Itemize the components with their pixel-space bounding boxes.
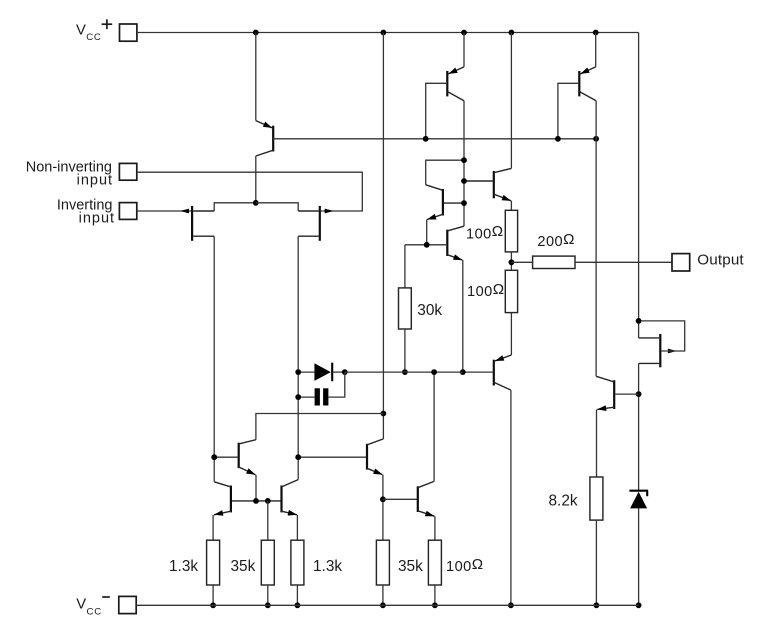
node junction diode cathode / capacitor [342, 369, 348, 375]
transistor Q13 (NPN, gain stage 2) [417, 486, 419, 512]
wire Q8 emitter down to R-8.2k [596, 410, 598, 477]
wire J2 drain node to Q12 base [298, 456, 366, 458]
node junction Q13 collector / gain line [431, 369, 437, 375]
svg-text:input: input [79, 210, 115, 226]
node junction R-100c / VCC- rail [432, 602, 438, 608]
wire R-35kb to VCC- rail [382, 585, 384, 605]
svg-text:30k: 30k [417, 302, 442, 319]
node junction top rail / Q1 emitter [253, 30, 259, 36]
svg-text:100Ω: 100Ω [446, 556, 483, 575]
resistor R-100b 100 ohm (vertical) [505, 270, 517, 312]
node junction Q2 base / base rail [423, 136, 429, 142]
node junction Q4 base / column [461, 200, 467, 206]
wire diode cathode to junction [333, 371, 345, 373]
node junction Q9 collector line / VCC+ branch [381, 411, 387, 417]
wire Q1/Q2/Q3 common base rail [273, 138, 596, 140]
node junction top rail / Q3 emitter [593, 30, 599, 36]
transistor Q11 (NPN, current mirror right) [280, 486, 282, 513]
node junction J3 source / Q8 base [636, 391, 642, 397]
wire Q1 emitter from top rail [255, 33, 257, 121]
svg-text:100Ω: 100Ω [466, 223, 503, 242]
wire Q9 collector to VCC+ branch [256, 414, 384, 440]
wire inverting input to J1 gate [137, 210, 191, 212]
wire Q1 collector down to input-pair sources [255, 156, 257, 203]
node VCC- terminal pad [119, 596, 136, 613]
wire J2 drain down to gain node [297, 236, 299, 479]
resistor R-35kb 35k (vertical) [376, 540, 389, 585]
node junction Q6 emitter / Q7 base / gain line [460, 369, 466, 375]
wire VCC+ top rail [137, 32, 639, 34]
node junction top rail / Q2 emitter [461, 30, 467, 36]
node junction J3 gate loop / drain line [636, 318, 642, 324]
wire Q13 base from Q12 emitter [383, 498, 417, 500]
wire Q8 base to right column [615, 393, 638, 395]
wire Q5 emitter to resistor R-100a [510, 201, 512, 211]
transistor J2 (p-JFET, non-inverting input) [319, 206, 321, 241]
wire R-100a to output node [510, 252, 512, 270]
wire R-35ka to VCC- rail [267, 585, 269, 605]
wire capacitor right plate up to diode cathode junction [328, 372, 344, 397]
wire Q6 base to R-30k top [405, 244, 446, 246]
node junction R-30k / gain line [402, 369, 408, 375]
wire Q3 base to common base rail [558, 83, 578, 139]
transistor Q1 (PNP, top left) [272, 126, 274, 152]
transistor Q6 (NPN, bias chain lower) [446, 230, 448, 256]
wire J1 drain down to Q9 base / Q10 collector [213, 236, 215, 482]
wire J1 source to common-source node [214, 203, 256, 211]
wire Q2 emitter from top rail [463, 33, 465, 67]
svg-text:200Ω: 200Ω [537, 231, 574, 250]
svg-text:100Ω: 100Ω [467, 281, 504, 300]
wire Q9 base from J1 drain [214, 456, 237, 458]
wire Q4 emitter down to Q6 base [426, 220, 428, 245]
resistor R-100c 100 ohm (vertical) [428, 540, 441, 585]
wire VCC- bottom rail [136, 604, 638, 606]
diode D1 (compensation) [314, 363, 330, 381]
wire mirror common base line [232, 500, 281, 502]
wire J2 drain to capacitor left plate [298, 396, 314, 398]
wire Q12 emitter down to R-35kb [382, 475, 384, 541]
wire R-200 to Output pad [575, 261, 672, 263]
wire mirror base tap down to R-35ka [267, 501, 269, 540]
node junction Q9 emitter / mirror base line [253, 498, 259, 504]
node junction base rail end / Q3 collector [593, 136, 599, 142]
transistor Q3 (PNP, top right) [578, 71, 580, 96]
transistor J1 (p-JFET, inverting input) [191, 206, 193, 241]
wire R-100b down to Q7 emitter [510, 313, 512, 355]
wire gain line diode-junction to Q7 base column [345, 371, 463, 373]
node junction J2 drain / diode anode [295, 369, 301, 375]
node output-network junction [509, 259, 515, 265]
wire Q3 collector down to Q8 collector [595, 101, 597, 377]
wire Q13 collector up to gain line [433, 372, 435, 481]
wire output node to R-200 [511, 261, 532, 263]
node junction R-8.2k / VCC- rail [594, 602, 600, 608]
resistor R-35ka 35k (vertical) [261, 540, 274, 585]
svg-text:Output: Output [697, 252, 744, 269]
wire Q5 base to column [464, 180, 493, 182]
wire VCC+ branch down to Q12 collector [382, 33, 384, 439]
svg-text:CC: CC [87, 606, 102, 617]
resistor R-1.3kb 1.3k (vertical) [291, 540, 304, 585]
node junction Q5 base / column [461, 178, 467, 184]
wire Q13 emitter to R-100c [434, 516, 436, 540]
transistor Q9 (NPN, mirror helper) [238, 443, 240, 468]
wire R-1.3ka to VCC- rail [212, 585, 214, 605]
wire non-inverting input to J2 gate [137, 172, 362, 211]
resistor R-30k 30k (vertical) [399, 288, 412, 329]
wire Q2 base to common base rail [426, 83, 447, 139]
wire J3 gate loop to drain [639, 321, 685, 351]
transistor Q8 (NPN, current limit) [613, 380, 615, 409]
wire VCC+ right branch down to J3 drain [638, 33, 640, 338]
svg-text:CC: CC [86, 32, 101, 43]
transistor Q12 (NPN, gain stage) [366, 444, 368, 470]
wire J2 source to common-source node [256, 203, 298, 211]
node common-source junction of J1/J2 [253, 200, 259, 206]
node junction Q4 collector / Q2 collector [461, 157, 467, 163]
node junction J2 drain / Q11 collector / Q12 base [295, 454, 301, 460]
wire gain node to diode anode [298, 371, 314, 373]
wire R-100c to VCC- rail [434, 585, 436, 605]
diode Z1 zener (output protection) [629, 490, 648, 492]
wire R-1.3kb to VCC- rail [296, 585, 298, 605]
wire Q2 collector down bias column [463, 101, 465, 227]
wire Q3 emitter from top rail [595, 33, 597, 67]
node junction R-35ka / VCC- rail [265, 602, 271, 608]
svg-text:1.3k: 1.3k [313, 558, 342, 575]
transistor Q4 (NPN, bias chain) [442, 189, 444, 216]
node junction J1 drain / Q9 base / Q10 collector [211, 454, 217, 460]
svg-text:V: V [76, 22, 86, 38]
node junction R-35kb / VCC- rail [380, 602, 386, 608]
wire Q11 emitter to R-1.3kb [296, 515, 298, 540]
wire J3 source down right column [638, 363, 640, 490]
resistor R-100a 100 ohm (vertical) [505, 210, 517, 252]
node VCC+ terminal pad [120, 24, 137, 41]
wire zener anode to VCC- rail [638, 508, 640, 605]
svg-text:8.2k: 8.2k [549, 493, 578, 510]
resistor R-200 200 ohm (horizontal) [533, 256, 575, 268]
transistor Q7 (PNP, output sink) [493, 360, 495, 386]
wire R-30k down to gain line [404, 329, 406, 372]
node junction Q3 base / base rail [555, 136, 561, 142]
wire Q6 base corner down to R-30k [404, 245, 406, 288]
wire Q7 base from gain line [463, 371, 493, 373]
transistor J3 (p-JFET, diode-connected, right) [659, 334, 661, 367]
node Inverting input terminal pad [119, 203, 136, 220]
wire R-8.2k to VCC- rail [595, 520, 597, 605]
wire Q4 base to column [444, 202, 464, 204]
node junction zener / VCC- rail [636, 602, 642, 608]
node junction R-1.3ka / VCC- rail [210, 602, 216, 608]
wire Q4 collector tie to Q2 collector column [426, 160, 464, 185]
capacitor C1 (compensation) [315, 388, 320, 405]
node junction Q6 base / Q4 emitter [424, 242, 430, 248]
transistor Q2 (PNP, top center) [446, 71, 448, 96]
node Non-inverting input terminal pad [119, 163, 136, 180]
svg-text:V: V [76, 597, 86, 613]
node junction top rail / Q5 collector [509, 30, 515, 36]
wire Q5 collector up to VCC+ rail [510, 33, 512, 169]
svg-text:35k: 35k [398, 558, 423, 575]
svg-text:1.3k: 1.3k [169, 558, 198, 575]
resistor R-1.3ka 1.3k (vertical) [207, 540, 220, 585]
node junction J2 drain / capacitor [295, 394, 301, 400]
wire Q10 emitter to R-1.3ka [212, 515, 214, 540]
node junction top rail / Q12 collector branch [381, 30, 387, 36]
transistor Q10 (NPN, current mirror left) [230, 486, 232, 513]
node junction R-1.3kb / VCC- rail [295, 602, 301, 608]
svg-text:input: input [77, 173, 113, 189]
wire Q6 emitter down to gain line [462, 260, 464, 372]
wire Q7 collector down to VCC- rail [510, 390, 512, 605]
node junction Q7 collector / VCC- rail [508, 602, 514, 608]
resistor R-8.2k 8.2k (vertical) [590, 477, 603, 520]
svg-text:35k: 35k [231, 558, 256, 575]
wire Q9 emitter down to mirror base line [255, 475, 257, 501]
node Output terminal pad [672, 254, 690, 271]
transistor Q5 (NPN, output stage driver top) [493, 171, 495, 198]
node junction Q12 emitter / Q13 base [380, 496, 386, 502]
node junction R-35ka tap / mirror base line [265, 498, 271, 504]
